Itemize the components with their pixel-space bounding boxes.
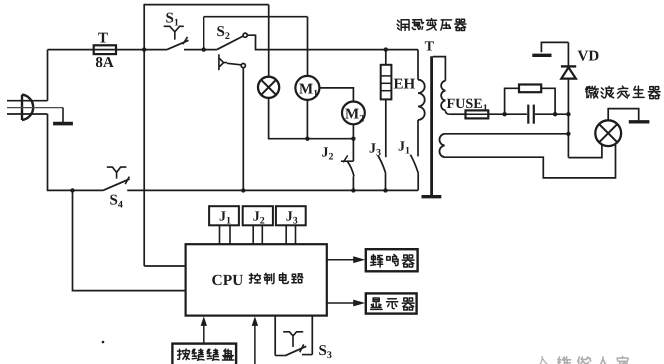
- svg-text:CPU: CPU: [212, 272, 244, 289]
- svg-text:8A: 8A: [95, 55, 114, 71]
- svg-text:T: T: [425, 40, 435, 55]
- svg-text:T: T: [98, 31, 108, 47]
- svg-text:FUSE1: FUSE1: [447, 96, 488, 114]
- svg-text:EH: EH: [394, 77, 416, 93]
- svg-text:VD: VD: [578, 49, 600, 65]
